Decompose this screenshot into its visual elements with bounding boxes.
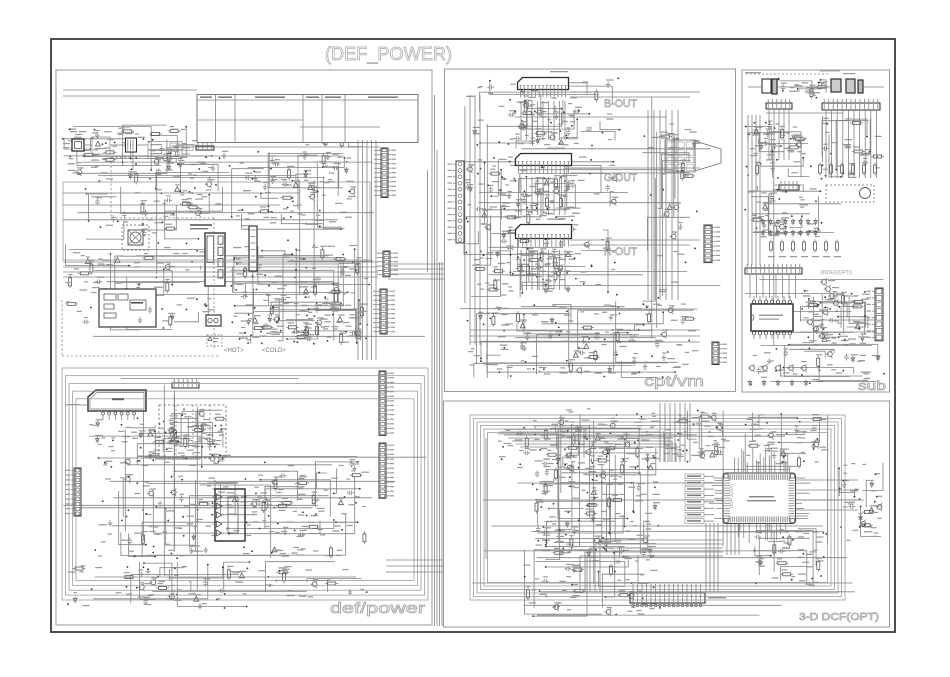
svg-text:B-OUT: B-OUT [604, 98, 637, 110]
svg-text:3-D DCF(OPT): 3-D DCF(OPT) [799, 612, 879, 623]
svg-text:def/power: def/power [330, 600, 425, 617]
svg-text:(DEF_POWER): (DEF_POWER) [325, 43, 452, 65]
svg-text:R-OUT: R-OUT [604, 246, 637, 258]
svg-text:<COLD>: <COLD> [262, 348, 286, 354]
svg-text:(INDEX(OPT)): (INDEX(OPT)) [820, 270, 853, 276]
svg-text:cpt/vm: cpt/vm [644, 374, 704, 390]
svg-text:sub: sub [858, 378, 886, 393]
svg-text:G-OUT: G-OUT [604, 172, 637, 184]
svg-text:<HOT>: <HOT> [224, 348, 244, 354]
